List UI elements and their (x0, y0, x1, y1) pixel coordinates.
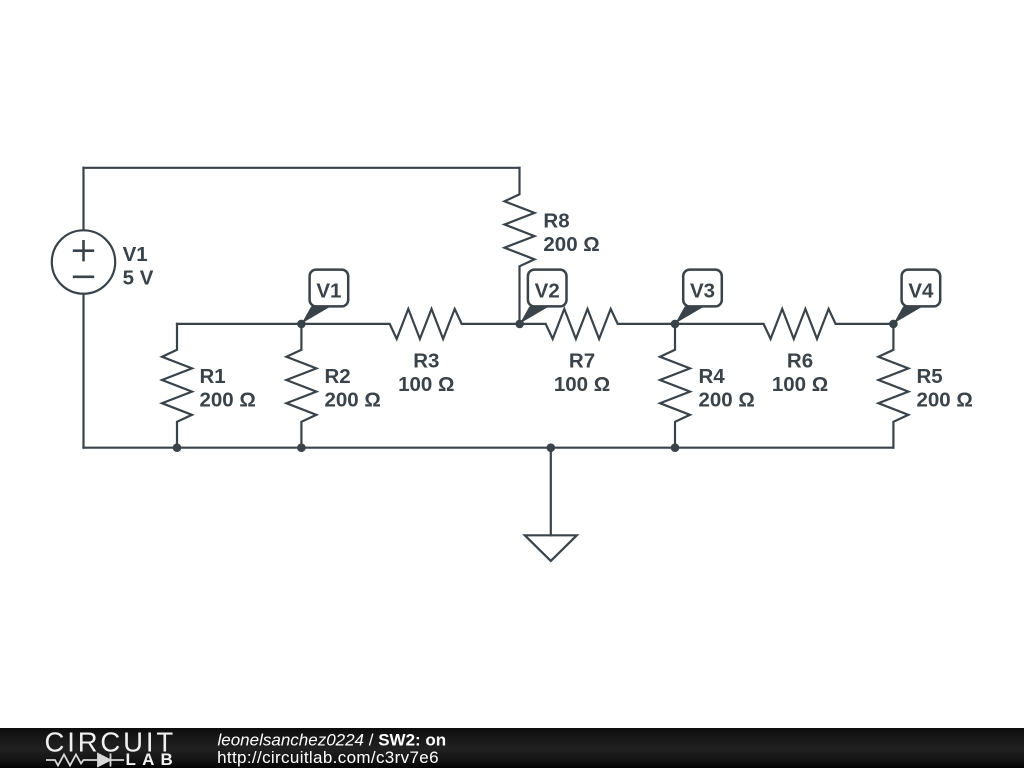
CircuitLab logo squiggle resistor-diode (46, 754, 124, 767)
resistor R8 (505, 168, 535, 324)
junction dot R4 bottom (671, 443, 680, 452)
label R1 200 (200, 365, 256, 412)
svg-text:leonelsanchez0224 / SW2: on: leonelsanchez0224 / SW2: on (218, 730, 447, 749)
node label V1 (302, 270, 349, 324)
resistor R3 (301, 309, 519, 339)
label R5 200 (917, 365, 973, 412)
svg-text:LAB: LAB (126, 750, 180, 768)
node label V4 (894, 270, 941, 324)
label R7 100 (554, 349, 610, 396)
label R3 100 (398, 349, 454, 396)
ground (525, 448, 577, 561)
footer username and SW2 state (217, 730, 446, 767)
node V2 junction dot (515, 320, 524, 329)
wire bottom rail (84, 447, 894, 449)
node label V2 (520, 270, 567, 324)
label R2 200 (325, 365, 381, 412)
wire top rail (84, 167, 520, 169)
label V1 5 V (123, 243, 154, 290)
resistor R4 (660, 324, 690, 448)
resistor R7 (520, 309, 676, 339)
CircuitLab logo text LAB (126, 750, 180, 768)
resistor R2 (286, 324, 316, 448)
CircuitLab logo text CIRCUIT (45, 726, 176, 757)
resistor R5 (878, 324, 908, 448)
junction dot R1 bottom (173, 443, 182, 452)
resistor R6 (675, 309, 893, 339)
label R8 200 (543, 210, 599, 257)
node V3 junction dot (671, 320, 680, 329)
svg-text:http://circuitlab.com/c3rv7e6: http://circuitlab.com/c3rv7e6 (217, 748, 439, 767)
wire R1-top to node V1 (177, 323, 301, 325)
wire left rail upper (82, 168, 84, 230)
label R6 100 (772, 349, 828, 396)
junction dot ground (547, 443, 556, 452)
voltage source V1 (52, 230, 115, 293)
node V4 junction dot (889, 320, 898, 329)
footer bar (0, 728, 1024, 768)
node label V3 (675, 270, 722, 324)
wire left rail lower (82, 294, 84, 448)
label R4 200 (699, 365, 755, 412)
junction dot R2 bottom (297, 443, 306, 452)
footer url (217, 748, 439, 767)
resistor R1 (162, 324, 192, 448)
node V1 junction dot (297, 320, 306, 329)
